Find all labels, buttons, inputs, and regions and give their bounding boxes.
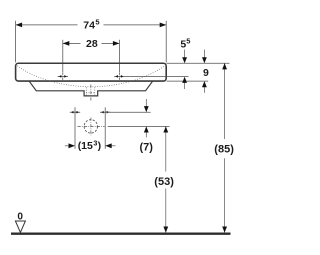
dimension 74-5 line (16, 24, 78, 26)
dimension 28 extension line right (118, 40, 120, 73)
washbasin rim outline (16, 63, 167, 81)
dimension 28 arrowheads (63, 41, 70, 46)
svg-text:(15: (15 (78, 140, 93, 152)
hidden drain outlet dotted lines (85, 87, 87, 95)
rim top reference line extended right (167, 62, 230, 64)
dimension 7 bottom arrow (145, 131, 147, 137)
floor line (11, 233, 231, 235)
siphon centerline horizontal dash-dot (78, 125, 105, 127)
dimension 28 extension line left (62, 40, 64, 73)
siphon center height reference line (7 bottom / 53 top) (108, 125, 170, 127)
dimension 7 top arrow (145, 99, 147, 109)
anchor bolt marker right (100, 111, 110, 114)
svg-text:(85): (85) (214, 143, 234, 155)
svg-text:28: 28 (86, 38, 98, 50)
siphon trap dashed circle (84, 120, 97, 133)
anchor bolt height reference line (105, 111, 151, 113)
hidden interior bowl dotted curve (17, 66, 164, 87)
dimension 74-5 arrowheads (16, 23, 23, 28)
anchor bolt marker left (70, 111, 80, 114)
washbasin bowl underside outline (29, 81, 153, 96)
svg-text:9: 9 (203, 67, 209, 79)
svg-text:(53): (53) (154, 176, 174, 188)
dimension 53 line (165, 126, 167, 171)
dimension 28 line (63, 40, 120, 73)
dimension 74-5 extension line right (165, 21, 167, 63)
svg-text:5: 5 (95, 17, 99, 26)
anchor bolt extension line right (104, 107, 106, 149)
rim bottom reference line extended right (9) (167, 80, 209, 82)
dimension 15-3 arrow right (110, 145, 115, 147)
dimension 15-3 arrow left (65, 145, 70, 147)
anchor bolt extension line left (74, 107, 76, 149)
drain centerline dash-dot (90, 85, 92, 101)
svg-text:0: 0 (17, 211, 23, 222)
svg-text:(7): (7) (140, 141, 154, 153)
dimension 9 arrows (203, 50, 205, 59)
datum triangle (15, 221, 25, 232)
dimension 74-5 extension line left (16, 21, 167, 63)
siphon centerline vertical dash-dot (90, 118, 92, 136)
dimension 85 line (224, 63, 226, 139)
svg-text:): ) (98, 140, 102, 152)
tap hole marker right (114, 73, 124, 81)
dimension 5-5 arrows (184, 50, 186, 59)
svg-text:74: 74 (83, 19, 95, 31)
hidden drain pipe dotted line (86, 92, 95, 94)
tap hole height reference line (5-5) (125, 76, 189, 78)
tap hole marker left (58, 73, 68, 81)
svg-text:5: 5 (186, 36, 190, 45)
